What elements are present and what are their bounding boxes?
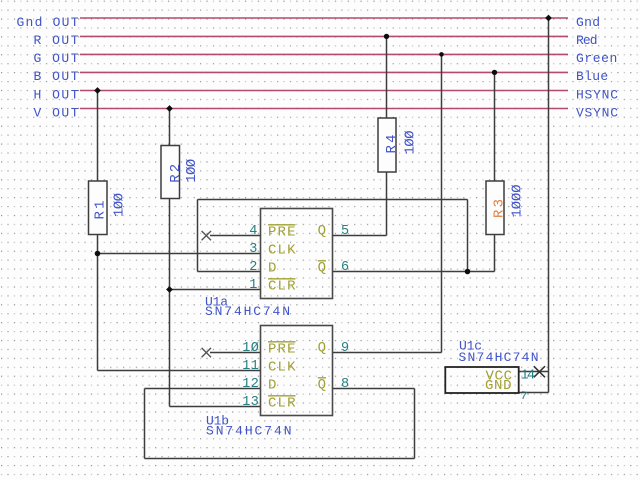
svg-text:1ØØ: 1ØØ	[112, 193, 128, 217]
svg-text:PRE: PRE	[268, 342, 296, 358]
wire U1a pin1 CLR	[170, 289, 261, 291]
wire U1a pin4 stub	[210, 235, 261, 237]
U1b pin numbers	[242, 341, 349, 410]
svg-text:1: 1	[249, 278, 257, 293]
wire Blue to R3 top	[494, 72, 496, 181]
svg-text:1ØØØ: 1ØØØ	[510, 185, 526, 218]
junction Green	[439, 52, 444, 57]
wire Red to R4 top	[386, 36, 388, 118]
svg-text:Blue: Blue	[576, 69, 608, 84]
svg-text:1ØØ: 1ØØ	[184, 159, 200, 183]
svg-text:CLK: CLK	[268, 360, 296, 376]
left net labels	[17, 15, 79, 121]
X at U1c pin14	[534, 366, 545, 377]
svg-text:CLK: CLK	[268, 243, 296, 259]
svg-text:HSYNC: HSYNC	[576, 87, 618, 102]
junction Gnd	[545, 15, 552, 22]
net Gnd wire	[80, 17, 568, 19]
net Blue wire	[80, 71, 568, 73]
wire U1c pin7	[519, 392, 549, 394]
net Red wire	[80, 35, 568, 37]
part label U1c	[459, 339, 539, 365]
wire R1 bottom lead	[97, 235, 99, 371]
svg-text:SN74HC74N: SN74HC74N	[206, 423, 292, 438]
wire U1b pin8	[333, 388, 415, 390]
svg-text:G OUT: G OUT	[34, 51, 79, 66]
svg-text:11: 11	[242, 359, 259, 374]
svg-text:Red: Red	[576, 33, 598, 48]
U1c pin names	[485, 368, 512, 394]
wire U1a pin3 CLK	[98, 253, 261, 255]
net Green wire	[80, 53, 568, 55]
U1b pin names	[268, 340, 326, 412]
svg-text:4: 4	[527, 368, 535, 383]
right net labels	[576, 15, 618, 121]
svg-text:Q: Q	[318, 223, 326, 239]
wire R3 bottom lead	[494, 235, 496, 272]
resistor R1	[89, 181, 128, 235]
svg-text:R OUT: R OUT	[34, 33, 79, 48]
svg-text:SN74HC74N: SN74HC74N	[459, 350, 539, 365]
svg-text:D: D	[268, 377, 276, 393]
wire feedback vertical left	[197, 200, 199, 272]
wire VSYNC to R2 top	[169, 109, 171, 146]
wire feedback vertical right	[467, 200, 469, 272]
svg-text:GND: GND	[485, 378, 512, 394]
resistor R2	[161, 146, 200, 199]
wire U1b pin13 CLR	[170, 406, 261, 408]
svg-text:Q: Q	[318, 377, 326, 393]
wire HSYNC to R1 top	[97, 91, 99, 182]
resistor R4	[378, 118, 419, 172]
svg-text:CLR: CLR	[268, 279, 296, 295]
junction R1-CLK	[95, 251, 101, 257]
svg-text:PRE: PRE	[268, 225, 296, 241]
wire R2 bottom lead	[169, 199, 171, 407]
svg-text:CLR: CLR	[268, 396, 296, 412]
svg-text:13: 13	[242, 395, 259, 410]
wire loop left vertical	[144, 389, 146, 459]
svg-text:5: 5	[341, 224, 349, 239]
junction HSYNC	[94, 87, 101, 94]
wire loop bottom	[145, 458, 415, 460]
svg-text:Q: Q	[318, 260, 326, 276]
svg-text:H OUT: H OUT	[34, 87, 79, 102]
junction R2-CLR	[166, 286, 173, 293]
svg-text:D: D	[268, 260, 276, 276]
svg-text:VSYNC: VSYNC	[576, 105, 618, 120]
net VSYNC wire	[80, 108, 568, 110]
junction Red-R4	[384, 34, 389, 39]
svg-text:Q: Q	[318, 340, 326, 356]
wire U1b pin9	[333, 352, 442, 354]
svg-text:Gnd: Gnd	[576, 15, 600, 30]
U1c pin numbers	[520, 368, 536, 403]
U1a pin names	[268, 223, 326, 295]
part label U1a	[205, 295, 290, 319]
junction Q6-R3	[465, 269, 471, 275]
wire U1b pin11 CLK	[98, 370, 261, 372]
IC U1c power box	[445, 367, 518, 393]
wire R4 bottom lead	[386, 172, 388, 236]
wire U1a pin6 to R3	[333, 271, 495, 273]
wire U1c pin14	[519, 371, 549, 373]
svg-text:Gnd OUT: Gnd OUT	[17, 15, 79, 30]
X unconnected U1b pin10	[202, 348, 211, 357]
svg-text:9: 9	[341, 341, 349, 356]
svg-text:1Ø: 1Ø	[242, 341, 259, 356]
wire U1b pin12 D	[145, 388, 261, 390]
svg-text:V OUT: V OUT	[34, 105, 79, 120]
op IC U1a box	[261, 209, 333, 299]
wire Green vertical	[441, 54, 443, 352]
svg-text:4: 4	[249, 224, 257, 239]
part label U1b	[206, 413, 292, 438]
wire loop right vertical	[414, 389, 416, 459]
wire R4 to U1a pin5	[333, 235, 387, 237]
resistor R3	[486, 181, 526, 235]
svg-text:12: 12	[242, 377, 259, 392]
wire U1a pin2 D	[198, 271, 261, 273]
junction VSYNC	[166, 105, 173, 112]
U1a pin numbers	[249, 224, 349, 293]
IC U1b box	[261, 326, 333, 416]
svg-text:1ØØ: 1ØØ	[403, 131, 419, 155]
svg-text:3: 3	[249, 242, 257, 257]
svg-text:Green: Green	[576, 51, 617, 66]
net HSYNC wire	[80, 90, 568, 92]
junction Blue	[492, 70, 497, 75]
X unconnected U1a pin4	[202, 231, 211, 240]
wire Gnd vertical to U1c	[548, 18, 550, 393]
svg-text:8: 8	[341, 377, 349, 392]
svg-text:2: 2	[249, 260, 257, 275]
wire feedback top	[198, 199, 468, 201]
svg-text:SN74HC74N: SN74HC74N	[205, 304, 290, 319]
svg-text:B OUT: B OUT	[34, 69, 79, 84]
wire U1b pin10 stub	[210, 352, 261, 354]
svg-text:6: 6	[341, 260, 349, 275]
